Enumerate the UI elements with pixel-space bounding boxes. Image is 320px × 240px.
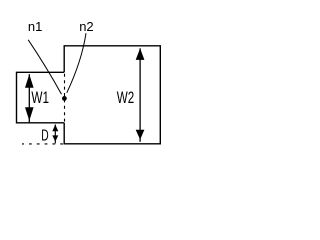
- wire: large waveguide outline (right rectangle, open on left between y=72 and y=123): [64, 46, 160, 144]
- svg-text:n1: n1: [28, 19, 42, 34]
- dimension arrow W2: [136, 48, 145, 142]
- svg-text:W2: W2: [117, 89, 134, 107]
- wire: leader line from n1 to node: [28, 40, 61, 95]
- wire: leader line from n2 to node: [67, 33, 86, 93]
- wire: small waveguide outline (left rectangle, open on right): [17, 72, 65, 123]
- node junction dot: [62, 96, 67, 101]
- svg-text:D: D: [41, 127, 48, 144]
- dimension arrow D: [52, 125, 58, 144]
- dimension arrow W1: [25, 74, 34, 122]
- wire: horizontal dashed extension of bottom edge: [22, 143, 63, 145]
- svg-text:n2: n2: [79, 19, 93, 34]
- svg-text:W1: W1: [31, 88, 49, 107]
- wire: vertical dashed reference plane at junction: [64, 74, 66, 122]
